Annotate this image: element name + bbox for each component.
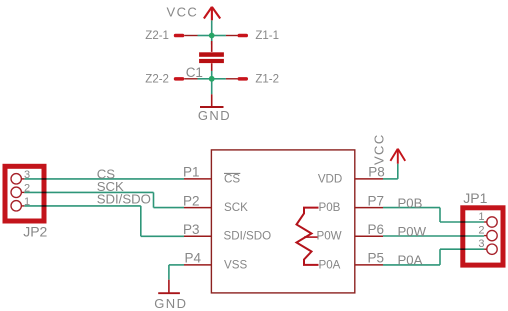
IC pin P3 line [184, 235, 211, 237]
wire VCC net: vertical from arrow to junction [211, 20, 213, 35]
svg-text:P5: P5 [368, 251, 385, 266]
connector JP1 body [463, 208, 503, 265]
IC pin P1 line [184, 178, 211, 180]
svg-text:P3: P3 [183, 222, 200, 237]
potentiometer wiper lead [304, 236, 319, 238]
power symbol VCC arrow right [390, 149, 405, 164]
svg-text:GND: GND [198, 108, 231, 123]
svg-text:P8: P8 [368, 165, 385, 180]
svg-text:JP1: JP1 [463, 190, 487, 206]
svg-text:P0B: P0B [319, 201, 341, 214]
wire net CS: JP2 pin3 to IC pin P1 [24, 178, 184, 180]
svg-text:VDD: VDD [318, 172, 342, 185]
IC pin P6 line [355, 235, 383, 237]
svg-text:Z2-1: Z2-1 [145, 30, 169, 42]
svg-text:JP2: JP2 [23, 223, 47, 239]
svg-text:P0A: P0A [398, 252, 423, 267]
power symbol VCC arrow top [204, 7, 220, 20]
potentiometer resistor element inside IC [297, 208, 319, 265]
ground symbol GND top [200, 94, 224, 107]
wire net P0A: vertical jog up [439, 249, 441, 265]
svg-text:P0W: P0W [317, 230, 342, 243]
svg-text:GND: GND [154, 296, 187, 311]
pin Z2-1 stub [174, 34, 198, 38]
wire net P0A: horizontal to JP1 pin3 [440, 248, 484, 250]
capacitor C1 top plate [199, 52, 224, 57]
svg-text:P0W: P0W [398, 224, 427, 239]
wire net SDI/SDO: horizontal from JP2 pin1 [24, 205, 141, 207]
pin segment JP2 pin3 [22, 178, 25, 180]
svg-text:1: 1 [24, 196, 30, 208]
IC pin P4 line [184, 264, 211, 266]
svg-text:CS: CS [224, 172, 240, 185]
junction dot bottom GND net [209, 76, 215, 82]
svg-text:3: 3 [24, 169, 30, 181]
svg-text:P0A: P0A [319, 258, 341, 271]
svg-text:2: 2 [478, 225, 484, 237]
junction dot top VCC net [209, 33, 215, 39]
svg-text:3: 3 [478, 238, 484, 250]
svg-text:P4: P4 [185, 251, 202, 266]
pin segment JP2 pin1 [22, 205, 25, 207]
wire net P0B: horizontal to JP1 pin1 [440, 221, 484, 223]
svg-text:P7: P7 [368, 193, 385, 208]
wire net P0B: vertical jog down [439, 208, 441, 222]
connector JP1 pin circle 3 [487, 244, 497, 254]
svg-text:P1: P1 [183, 165, 200, 180]
svg-text:2: 2 [24, 182, 30, 194]
connector JP2 body [5, 166, 44, 221]
IC pin P5 line [355, 264, 383, 266]
wire net SCK: horizontal to IC pin P2 [154, 207, 185, 209]
svg-text:SCK: SCK [224, 201, 248, 214]
pin segment JP1 pin1 [484, 221, 487, 223]
capacitor C1 leads [211, 41, 213, 71]
wire GND net row2: right segment to Z1-2 pin [212, 78, 226, 80]
svg-text:SDI/SDO: SDI/SDO [97, 192, 151, 207]
IC pin name CS with overline [224, 172, 240, 185]
capacitor C1 bottom plate [199, 59, 224, 63]
wire net SDI/SDO: horizontal to IC pin P3 [141, 235, 184, 237]
wire net CS top row (junction to VCC area) [24, 20, 484, 279]
wire net SDI/SDO: vertical jog [140, 206, 142, 236]
svg-text:Z2-2: Z2-2 [145, 74, 169, 86]
wire GND net row2: left segment to Z2-2 pin [198, 78, 212, 80]
pin segment JP1 pin3 [484, 248, 487, 250]
svg-text:Z1-1: Z1-1 [255, 30, 279, 42]
wire net GND (VSS): vertical down to GND symbol [168, 265, 170, 280]
svg-text:Z1-2: Z1-2 [255, 74, 279, 86]
wire net GND (VSS): horizontal from IC pin P4 [169, 264, 184, 266]
wire GND net: capacitor bottom lead to junction [211, 71, 213, 79]
svg-text:P0B: P0B [398, 196, 423, 211]
wire net P0A: horizontal from IC pin P5 [383, 264, 440, 266]
wire net SCK: vertical jog [153, 192, 155, 207]
pin segment JP2 pin2 [22, 191, 25, 193]
pin segment JP1 pin2 [484, 235, 487, 237]
connector JP1 pin circle 2 [487, 230, 497, 240]
svg-text:P6: P6 [368, 222, 385, 237]
pin Z1-2 stub [226, 77, 248, 81]
wire VCC net: junction to capacitor top lead [211, 36, 213, 45]
wire VCC net top: right segment to Z1-1 pin [212, 35, 226, 37]
ground symbol GND bottom left [158, 280, 180, 294]
svg-text:C1: C1 [186, 65, 203, 80]
connector JP2 pin circle 3 [11, 174, 21, 184]
connector JP2 pin circle 1 [11, 201, 21, 211]
wire VCC net top: left segment to Z2-1 pin [198, 35, 212, 37]
svg-text:VCC: VCC [167, 5, 199, 20]
svg-text:VSS: VSS [224, 258, 247, 271]
svg-text:P2: P2 [183, 193, 200, 208]
IC pin P7 line [355, 207, 383, 209]
connector JP1 pin circle 1 [487, 217, 497, 227]
svg-text:SDI/SDO: SDI/SDO [224, 230, 272, 243]
wire net SCK: horizontal from JP2 pin2 [24, 191, 153, 193]
IC U1 body [211, 150, 354, 293]
pin Z2-2 stub [174, 77, 198, 81]
wire net P0B: horizontal from IC pin P7 [383, 207, 440, 209]
wire net P0W: straight from IC pin P6 to JP1 pin2 [383, 235, 484, 237]
IC pin P2 line [184, 207, 211, 209]
pin Z1-1 stub [226, 34, 248, 38]
svg-text:1: 1 [478, 211, 484, 223]
connector JP2 pin circle 2 [11, 187, 21, 197]
wire net VCC right: vertical up to arrow [397, 164, 399, 179]
wire net VCC right: from IC pin P8 [383, 178, 398, 180]
IC pin P8 line [355, 178, 383, 180]
svg-text:VCC: VCC [372, 133, 387, 165]
wire GND net: junction down to GND symbol [211, 79, 213, 95]
